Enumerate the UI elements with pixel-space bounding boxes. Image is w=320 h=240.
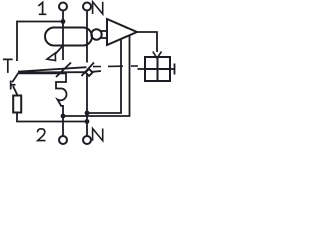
test button link lower (13, 86, 18, 96)
wire secondary to amplifier lower (101, 37, 107, 39)
wire amplifier output (137, 32, 157, 52)
terminal N bottom (83, 136, 91, 144)
label 1 (38, 2, 46, 14)
label N bottom (93, 129, 103, 141)
node test tap (61, 19, 66, 24)
thermal overload element (19, 73, 67, 106)
wire amplifier supply outer (63, 35, 130, 116)
node supply inner on N (85, 111, 90, 116)
trip arrow from toroid (55, 46, 63, 54)
solenoid cross vertical (157, 57, 159, 81)
wire phase top (62, 10, 64, 60)
mechanism dashed link (93, 65, 138, 68)
test button plate (10, 81, 12, 90)
test button stem (11, 84, 16, 86)
wire neutral bottom (86, 73, 88, 136)
resistor (13, 96, 21, 113)
node resistor to N (85, 119, 90, 124)
mechanism bar upper (18, 67, 87, 71)
wire resistor bottom (17, 113, 87, 122)
wire amplifier supply inner (87, 39, 121, 113)
op-amp amplifier (107, 19, 137, 45)
terminal 1 (59, 3, 67, 11)
test button label T (3, 59, 13, 73)
arrow into solenoid (153, 52, 162, 59)
mechanism pivot diamond (85, 69, 92, 76)
solenoid anchor tick (174, 64, 176, 75)
label 2 (37, 129, 45, 141)
solenoid cross horizontal (145, 68, 170, 70)
secondary winding (91, 29, 101, 39)
test button link upper (12, 73, 18, 82)
wire neutral top (86, 10, 88, 62)
wire test tap horizontal (17, 21, 63, 23)
terminal N top (83, 3, 91, 11)
current transformer toroid (45, 28, 92, 46)
trip solenoid box (145, 57, 170, 81)
terminal 2 (59, 136, 67, 144)
mechanism bar right (92, 70, 101, 73)
wire phase bottom (62, 105, 64, 107)
mechanism bar lower (18, 71, 86, 73)
wire test vertical (16, 21, 18, 61)
contact blade phase (56, 63, 71, 78)
contact blade neutral (82, 63, 95, 77)
label N top (93, 2, 103, 14)
solenoid left stub (138, 68, 146, 70)
node supply outer on phase (61, 114, 66, 119)
wire secondary to amplifier upper (101, 30, 107, 32)
solenoid right stub (170, 68, 175, 70)
trip arrowhead (47, 53, 56, 61)
